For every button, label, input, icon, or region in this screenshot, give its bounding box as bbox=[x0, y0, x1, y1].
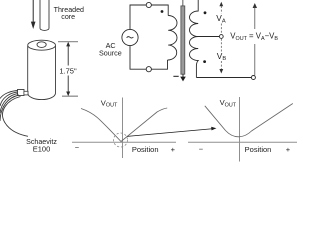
right graph vertical axis bbox=[239, 97, 241, 162]
dashed null circle bbox=[114, 133, 128, 147]
annotation arrow bbox=[127, 129, 212, 137]
threaded core rod bbox=[40, 0, 49, 30]
svg-text:+: + bbox=[171, 145, 176, 154]
core insertion arrow bbox=[31, 0, 36, 29]
VA VB dashed measure line bbox=[219, 2, 223, 74]
center tap terminal bbox=[219, 35, 223, 39]
lead wires bbox=[0, 91, 28, 137]
AC source bbox=[122, 29, 138, 45]
center tap wire bbox=[198, 36, 220, 38]
secondary polarity dot bottom bbox=[203, 60, 206, 63]
svg-text:1.75": 1.75" bbox=[59, 66, 77, 75]
secondary coil bbox=[189, 0, 198, 78]
connector block bbox=[18, 90, 25, 96]
svg-text:E100: E100 bbox=[33, 145, 51, 154]
terminal circle bottom bbox=[146, 67, 151, 72]
svg-text:+: + bbox=[286, 145, 291, 154]
svg-text:Position: Position bbox=[132, 145, 159, 154]
left graph vertical axis bbox=[122, 98, 124, 159]
primary circuit wires bbox=[130, 5, 168, 69]
svg-text:core: core bbox=[61, 13, 75, 21]
Vout measure line bbox=[253, 3, 257, 75]
left graph V curve bbox=[81, 108, 167, 142]
LVDT body cylinder bbox=[28, 40, 56, 99]
primary coil bbox=[168, 16, 178, 61]
secondary polarity dot top bbox=[204, 11, 207, 14]
svg-text:−: − bbox=[75, 143, 80, 152]
bottom secondary wire bbox=[196, 77, 251, 79]
primary polarity dot bbox=[161, 10, 164, 13]
svg-text:Source: Source bbox=[99, 49, 122, 58]
svg-text:−: − bbox=[199, 144, 204, 153]
core motion arrow bbox=[173, 74, 185, 81]
right graph horizontal axis bbox=[188, 141, 297, 143]
dimension 1.75" bbox=[58, 42, 78, 96]
right graph U curve bbox=[205, 104, 293, 137]
left graph horizontal axis bbox=[72, 141, 176, 143]
svg-text:Position: Position bbox=[245, 145, 272, 154]
terminal circle top bbox=[146, 2, 151, 7]
transformer core bar bbox=[181, 6, 185, 74]
output terminal bbox=[251, 76, 255, 80]
